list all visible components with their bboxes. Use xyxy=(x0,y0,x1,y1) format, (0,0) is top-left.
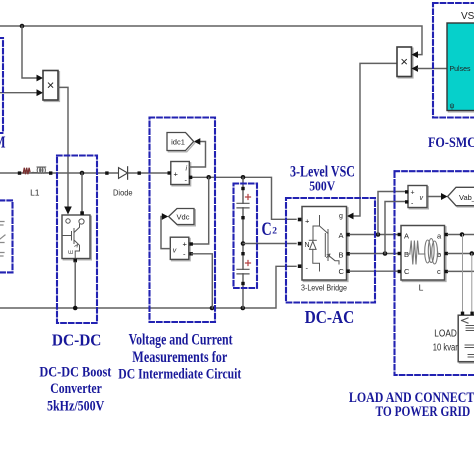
wire Vab output xyxy=(427,196,442,198)
port square ammeter out xyxy=(189,176,192,179)
port square PV output xyxy=(18,171,21,174)
svg-text:×: × xyxy=(47,78,55,93)
svg-text:idc1: idc1 xyxy=(171,138,185,147)
wire voltmeter minus to bottom bus xyxy=(192,254,213,308)
svg-text:L1: L1 xyxy=(30,188,40,198)
capacitor C2a plates xyxy=(237,203,249,208)
svg-text:+: + xyxy=(411,190,415,197)
node bus to IGBT junction xyxy=(80,171,85,176)
wire pulses from FO-SMC to U5 xyxy=(418,68,447,70)
wire main DC bus right of measurement xyxy=(191,177,297,219)
svg-text:FO-SMC: FO-SMC xyxy=(428,135,474,151)
svg-text:Diode: Diode xyxy=(113,189,133,198)
svg-text:5kHz/500V: 5kHz/500V xyxy=(47,399,105,415)
goto tag Vab xyxy=(449,189,474,207)
wire IGBT emitter to bottom bus xyxy=(74,262,76,308)
svg-text:LOAD: LOAD xyxy=(434,328,457,340)
port square before diode xyxy=(105,171,108,174)
arrowhead into Vdc xyxy=(162,213,169,220)
inductor coil L1 xyxy=(30,171,37,174)
arrowhead U5 input1 xyxy=(412,51,419,58)
resistor part of L1 (red zigzag) xyxy=(23,168,30,174)
svg-text:C: C xyxy=(262,219,272,240)
wire multiplier input 2 from left edge xyxy=(0,92,37,94)
svg-text:c: c xyxy=(437,267,441,276)
op-amp arrowhead input1 U1 xyxy=(37,75,44,82)
svg-text:Measurements for: Measurements for xyxy=(132,349,227,366)
node phase A junction xyxy=(376,232,381,237)
node phase b junction xyxy=(470,251,474,256)
wire phase b out xyxy=(448,253,474,255)
arrowhead U5 input2 xyxy=(412,65,419,72)
bridge internal icon xyxy=(309,216,339,272)
node top-bus junction xyxy=(20,24,25,29)
wire phase B xyxy=(350,253,398,255)
arrowhead gate down xyxy=(64,207,72,215)
PV block fragment marks xyxy=(0,222,5,257)
svg-text:DC Intermediate Circuit: DC Intermediate Circuit xyxy=(118,367,241,383)
svg-text:Converter: Converter xyxy=(50,381,102,397)
svg-text:500V: 500V xyxy=(309,180,335,195)
wire ammeter i output to idc1 xyxy=(189,142,205,168)
dashed box FO-SMC xyxy=(433,3,474,118)
svg-text:DC-DC Boost: DC-DC Boost xyxy=(39,364,111,380)
arrowhead into idc1 xyxy=(194,138,201,145)
polarity mark C2a xyxy=(246,195,251,200)
arrowhead into g xyxy=(347,213,354,220)
wire a down to load xyxy=(462,235,464,313)
svg-text:DC-DC: DC-DC xyxy=(52,330,102,349)
node main bus junction at voltmeter xyxy=(206,175,211,180)
svg-text:2: 2 xyxy=(272,226,277,236)
goto tag idc1 xyxy=(168,134,195,152)
wire junction down to voltmeter plus xyxy=(193,177,209,244)
voltmeter U6 Vab xyxy=(409,187,428,209)
wire bus to IGBT collector xyxy=(81,173,83,212)
dashed box PV (left, cut) xyxy=(0,200,13,272)
dashed box MPPT (left, cut) xyxy=(0,38,3,133)
arrowhead input2 U1 xyxy=(37,89,44,96)
dashed box load and grid xyxy=(395,171,474,375)
wire gate from multiplier U5 xyxy=(353,63,397,216)
svg-text:Voltage and Current: Voltage and Current xyxy=(129,332,234,349)
load block (three-phase RL load) xyxy=(460,317,474,364)
svg-text:+: + xyxy=(305,217,310,226)
dashed box DC-AC xyxy=(286,198,375,303)
svg-text:M: M xyxy=(0,133,6,152)
diode Diode xyxy=(119,168,128,179)
svg-text:3-Level VSC: 3-Level VSC xyxy=(290,164,355,181)
goto tag Vdc xyxy=(170,210,195,226)
svg-text:+: + xyxy=(183,240,188,249)
svg-text:+: + xyxy=(174,170,179,179)
capacitor C2b plates xyxy=(237,269,249,274)
node phase a junction xyxy=(460,232,465,237)
dashed box C2 xyxy=(234,184,258,289)
svg-text:C: C xyxy=(339,267,345,276)
wire U1 output to IGBT gate xyxy=(58,87,68,206)
capacitor C2 string xyxy=(242,177,244,308)
svg-text:Pulses: Pulses xyxy=(450,66,472,73)
wire b down to load xyxy=(471,254,473,313)
wire B junction up to voltmeter xyxy=(385,202,406,254)
svg-text:VSC: VSC xyxy=(461,11,474,22)
node bottom junction IGBT xyxy=(73,306,78,311)
svg-text:Vdc: Vdc xyxy=(177,213,190,222)
wire bottom bus xyxy=(0,266,296,308)
multiplier U5 (PWM product) xyxy=(398,48,413,78)
svg-text:E: E xyxy=(69,250,75,254)
wire main DC bus left xyxy=(0,172,171,174)
svg-text:g: g xyxy=(339,213,343,220)
svg-text:N: N xyxy=(305,242,310,249)
svg-text:v: v xyxy=(420,195,424,202)
port square after diode xyxy=(138,171,141,174)
wire phase A xyxy=(350,234,398,236)
ammeter U2 current measurement xyxy=(172,163,191,186)
svg-text:3-Level Bridge: 3-Level Bridge xyxy=(301,284,347,293)
wire top bus xyxy=(0,26,422,55)
wire phase a out xyxy=(448,234,474,236)
multiplier U1 (Product block) xyxy=(44,72,59,102)
svg-text:ψ: ψ xyxy=(450,103,455,110)
wire junction to multiplier input 1 xyxy=(22,26,37,78)
inductor L 3-phase block xyxy=(402,227,446,282)
wire voltmeter output to Vdc tag xyxy=(161,217,170,249)
node C2 midpoint xyxy=(241,241,246,246)
node main bus junction C2 xyxy=(241,175,246,180)
svg-text:v: v xyxy=(173,248,177,255)
svg-text:×: × xyxy=(400,54,408,69)
port squares C2 xyxy=(241,187,244,190)
node phase B junction xyxy=(383,251,388,256)
wire phase c out xyxy=(448,270,474,272)
svg-text:TO POWER GRID: TO POWER GRID xyxy=(376,404,471,420)
svg-text:10 kvar: 10 kvar xyxy=(433,343,459,354)
dashed box DC-DC boost xyxy=(57,156,97,324)
wire A junction up to voltmeter xyxy=(378,192,406,235)
svg-text:C: C xyxy=(404,267,410,276)
wire phase C xyxy=(350,270,398,272)
L internal squiggles xyxy=(406,239,441,265)
FO-SMC controller block (teal) xyxy=(448,24,474,112)
node bottom junction voltmeter xyxy=(210,306,215,311)
svg-text:DC-AC: DC-AC xyxy=(305,307,355,327)
svg-text:B: B xyxy=(339,251,344,260)
svg-text:L: L xyxy=(419,283,424,293)
voltmeter U3 Vdc measurement xyxy=(172,239,191,261)
svg-text:A: A xyxy=(339,231,344,240)
arrowhead into Vab tag xyxy=(441,193,448,200)
op-amp U4 3-Level Bridge xyxy=(303,208,348,282)
wire C2 midpoint to N xyxy=(243,243,296,245)
dashed box measurements xyxy=(150,118,216,323)
polarity mark C2b xyxy=(246,261,251,266)
transistor Q1 IGBT block (boost switch) xyxy=(63,216,91,259)
svg-text:Vab_: Vab_ xyxy=(459,193,474,202)
port square after L1 xyxy=(49,171,52,174)
node bottom junction C2 xyxy=(241,306,246,311)
svg-text:A: A xyxy=(404,232,409,241)
